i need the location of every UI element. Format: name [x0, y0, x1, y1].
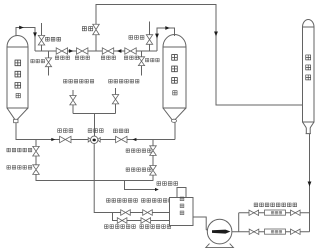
- label 去焦炭塔顶甲: [63, 79, 94, 83]
- wire fractionator bottoms down to filter lines: [309, 134, 311, 232]
- wire tower A overhead (up, right, down to vapor header): [16, 28, 35, 52]
- arrow flow right on bottom header (left): [51, 138, 55, 141]
- valve 一线风油阀 A: [33, 146, 40, 156]
- wire tower A bottom outlet: [16, 123, 175, 140]
- label 环阀: [82, 27, 93, 31]
- wire riser to upper filter line: [238, 213, 240, 232]
- label 一线风油阀 B: [126, 149, 151, 153]
- valve filter upper inlet: [249, 210, 259, 215]
- wire breather stub A: [48, 51, 50, 76]
- wire tower B bottom drop: [174, 123, 176, 140]
- vessel coke tower B (焦炭塔乙) shell: [163, 35, 186, 123]
- valve 切断阀 #1 (shut-off): [56, 48, 67, 54]
- wire gas-oil branch A down: [36, 140, 153, 181]
- label 切断阀 #1: [55, 56, 70, 60]
- valve 呼吸阀 (breather valve B): [138, 57, 144, 66]
- wire stub to coke tower top A: [72, 90, 74, 114]
- wire step line to gas-oil line out: [125, 181, 156, 190]
- wire manifold joining both stubs: [73, 113, 116, 115]
- label 加热炉 (vertical): [180, 197, 184, 215]
- wire pump outlet / lower filter line: [232, 231, 310, 233]
- valve 加热炉出口阀 B1: [117, 218, 127, 224]
- label 放空阀 B: [129, 36, 144, 40]
- label 切断阀 #4: [124, 56, 139, 60]
- pump circle with impeller arrow: [206, 219, 234, 247]
- wire ring-valve riser x=96 with top header to fractionator: [96, 5, 303, 106]
- arrow flow down on line to fractionator: [214, 32, 218, 37]
- four-way valve 四通阀: [88, 136, 100, 143]
- valve 切断阀 #2 (shut-off): [77, 48, 88, 54]
- valve 切断阀 bottom B: [116, 136, 127, 142]
- label 呼吸阀 B: [145, 58, 159, 61]
- arrow flow left before valve #4: [117, 49, 122, 53]
- valve 呼吸阀 (breather valve A): [45, 58, 51, 67]
- label 焦炭塔甲 (vertical): [15, 60, 21, 98]
- valve 切断阀 bottom A: [60, 136, 71, 142]
- wire furnace to pump: [193, 217, 208, 231]
- arrow flow right into tower B: [165, 26, 170, 30]
- wire upper filter line: [239, 212, 310, 214]
- filter lower (过滤器): [265, 229, 286, 234]
- label 去风油线: [157, 182, 178, 186]
- arrow flow down into vapor header (left): [33, 32, 37, 37]
- valve 二线风油阀 A: [33, 165, 40, 175]
- arrow flow left on bottom header (right): [132, 138, 136, 141]
- label 加热炉出口阀 A1: [106, 199, 137, 203]
- valve 加热炉出口阀 B2: [141, 218, 151, 224]
- valve on stub to tower top B: [112, 95, 118, 104]
- label 切断阀 #3: [101, 56, 116, 60]
- wire gas-oil branch B down: [152, 140, 154, 181]
- wire drop to lower furnace line: [113, 213, 170, 221]
- valve 环阀 (ring valve): [93, 24, 100, 35]
- label 四通阀: [88, 129, 103, 133]
- valve 放空阀 (vent valve A): [38, 35, 44, 45]
- label 分馏塔 (vertical): [305, 55, 310, 80]
- label 加热炉出口阀 B2: [140, 225, 171, 229]
- arrow flow down on header end riser: [155, 34, 159, 39]
- label 焦炭塔乙 (vertical): [171, 55, 177, 95]
- label 放空阀 A: [45, 37, 60, 41]
- wire stub to coke tower top B: [115, 88, 117, 114]
- wire vent stub A: [41, 23, 43, 51]
- valve 加热炉出口阀 A1: [121, 210, 131, 216]
- valve on stub to tower top A: [70, 96, 76, 105]
- arrow flow right after valve #1: [69, 49, 74, 53]
- furnace 加热炉 box: [170, 188, 194, 226]
- valve 一线风油阀 B: [150, 146, 157, 156]
- wire drop from manifold to four-way valve: [94, 114, 96, 137]
- label 切断阀 bottom A: [58, 129, 73, 133]
- label 一线风油阀 A: [7, 148, 32, 152]
- vessel coke tower A (焦炭塔甲) shell: [7, 36, 28, 123]
- arrow gas-oil line outlet: [155, 188, 159, 191]
- valve 放空阀 (vent valve B): [146, 35, 152, 45]
- wire vent stub B: [149, 22, 151, 52]
- wire four-way valve down to furnace inlet line: [94, 144, 169, 212]
- valve 加热炉出口阀 A2: [143, 210, 153, 216]
- arrow flow down on fractionator bottoms: [308, 182, 312, 187]
- valve filter lower outlet: [291, 229, 301, 234]
- valve filter lower inlet: [249, 229, 259, 234]
- valve filter upper outlet: [291, 210, 301, 215]
- label 加热炉出口阀 A2: [141, 199, 172, 203]
- valve 切断阀 #3 (shut-off): [102, 48, 113, 54]
- wire vapor header y=51: [35, 50, 157, 52]
- wire header end up-over-down into tower B top: [157, 28, 175, 51]
- label 过滤器前后切断阀: [254, 203, 297, 207]
- vessel fractionator (分馏塔) shell: [303, 20, 315, 134]
- label 去焦炭塔顶乙: [108, 79, 139, 83]
- arrow flow right on tower A overhead: [19, 26, 24, 30]
- label 呼吸阀 A: [31, 59, 45, 62]
- valve 二线风油阀 B: [150, 166, 157, 176]
- label 切断阀 bottom B: [113, 129, 128, 133]
- label 二线风油阀 B: [126, 168, 151, 172]
- label 二线风油阀 A: [7, 166, 32, 170]
- wire breather stub B: [141, 51, 143, 76]
- filter upper (过滤器): [265, 210, 286, 215]
- valve 切断阀 #4 (shut-off): [125, 48, 136, 54]
- label 加热炉出口阀 B1: [104, 225, 135, 229]
- label 切断阀 #2: [75, 56, 90, 60]
